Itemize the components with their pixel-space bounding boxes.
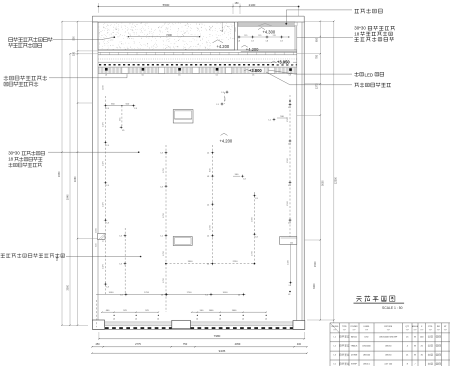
svg-text:TYP: TYP <box>352 329 355 331</box>
dim right extension y83.8 <box>305 83 321 85</box>
svg-text:650: 650 <box>316 37 319 42</box>
svg-text:1000: 1000 <box>252 216 254 222</box>
svg-text:L1: L1 <box>238 295 240 297</box>
svg-text:12350: 12350 <box>335 176 338 184</box>
svg-text:L1: L1 <box>207 236 209 238</box>
dim right extension y115.3 <box>297 114 321 116</box>
lamp column C dashed <box>165 145 167 312</box>
svg-text:TYP: TYP <box>406 329 409 331</box>
svg-text:1500: 1500 <box>287 116 289 122</box>
svg-text:1700: 1700 <box>163 167 165 173</box>
svg-text:L5: L5 <box>105 74 107 76</box>
lamp column B markers <box>124 235 125 236</box>
leader right1 return air <box>286 10 352 24</box>
svg-text:570: 570 <box>258 35 261 37</box>
svg-text:1500: 1500 <box>287 157 289 163</box>
leader right2 membrane <box>297 36 353 38</box>
svg-text:LED: LED <box>365 337 369 339</box>
subroom wall left inner <box>237 22 239 50</box>
svg-text:7400: 7400 <box>166 33 172 37</box>
dim right extension bottom <box>307 319 334 321</box>
level +4.200 stipple white backing <box>212 40 236 50</box>
dim right extension y240 <box>305 239 321 241</box>
dim right extension y21.3 <box>305 20 334 22</box>
svg-text:1180: 1180 <box>103 85 105 90</box>
subroom lamp markers L3 row <box>238 36 239 37</box>
band line y52.4 <box>98 51 297 53</box>
leader dot gypsum label <box>114 36 116 38</box>
svg-text:POWER: POWER <box>351 326 358 328</box>
leader right3 LED <box>268 70 352 74</box>
svg-text:L2: L2 <box>265 318 267 320</box>
level +4.200 middle hat <box>221 133 228 135</box>
bottom black dash row <box>105 327 172 329</box>
dim left extension y53.8 <box>70 53 98 55</box>
svg-text:4059: 4059 <box>235 342 241 346</box>
svg-text:570: 570 <box>244 35 247 37</box>
legend table grid <box>330 323 450 366</box>
subroom wall left outer <box>234 22 236 50</box>
svg-text:1500: 1500 <box>314 261 317 267</box>
svg-text:L1: L1 <box>206 295 208 297</box>
svg-text:18: 18 <box>354 31 359 36</box>
band dotted line <box>98 58 297 60</box>
drop to L5 marker <box>121 106 123 128</box>
svg-text:ANGLE: ANGLE <box>412 325 419 328</box>
svg-text:L3: L3 <box>107 185 109 187</box>
svg-text:TYP: TYP <box>444 329 447 331</box>
svg-text:450: 450 <box>96 343 101 346</box>
svg-text:570: 570 <box>273 35 276 37</box>
svg-text:10D: 10D <box>420 337 424 339</box>
svg-text:L3: L3 <box>161 186 163 188</box>
svg-text:RM: RM <box>437 326 440 328</box>
svg-text:150: 150 <box>235 2 240 5</box>
svg-text:LED3000K W30 WF: LED3000K W30 WF <box>379 337 398 339</box>
svg-text:1700: 1700 <box>210 224 212 230</box>
svg-text:L1: L1 <box>121 295 123 297</box>
dim left mid vline <box>69 54 71 326</box>
svg-text:L3: L3 <box>266 40 268 42</box>
svg-text:L3: L3 <box>288 185 290 187</box>
svg-text:1470: 1470 <box>103 263 105 269</box>
svg-text:500: 500 <box>290 243 293 245</box>
svg-text:150: 150 <box>72 51 75 56</box>
svg-text:LED4000: LED4000 <box>362 346 371 348</box>
mini dim 650/500 at A top <box>106 105 134 107</box>
svg-text:L3: L3 <box>289 74 291 76</box>
dim bottom row1 line <box>99 338 304 340</box>
svg-text:TYP: TYP <box>413 329 416 331</box>
gypsum ceiling stipple texture <box>99 23 234 50</box>
dim left extension y238.6 <box>78 238 99 240</box>
lamp column G markers <box>289 100 291 102</box>
svg-text:L2: L2 <box>242 318 244 320</box>
svg-text:L1: L1 <box>269 120 271 122</box>
level +3.950 label <box>277 59 294 64</box>
svg-text:2250: 2250 <box>233 261 239 263</box>
svg-text:W: W <box>414 346 416 348</box>
svg-text:1700: 1700 <box>163 277 165 283</box>
svg-text:LED5.0: LED5.0 <box>363 364 371 366</box>
svg-text:L3: L3 <box>120 236 122 238</box>
row H2 line <box>96 294 245 296</box>
svg-text:STRIP: STRIP <box>351 364 358 366</box>
svg-text:L3: L3 <box>288 294 290 296</box>
interior dim row right segment <box>192 311 267 313</box>
svg-text:2100: 2100 <box>249 3 256 7</box>
svg-text:TYP: TYP <box>429 329 432 331</box>
svg-text:9435: 9435 <box>219 349 226 353</box>
lamp column G dashed <box>289 95 291 237</box>
svg-text:1950: 1950 <box>58 171 61 177</box>
dim bottom row3 line <box>92 352 307 354</box>
lamp column F markers <box>254 195 255 196</box>
lamp column D dashed <box>212 145 214 265</box>
svg-text:LUMIN.: LUMIN. <box>363 326 370 328</box>
dim left ticks <box>61 21 62 22</box>
marker L3 right of mini dim <box>133 105 134 106</box>
AC return air grille bar <box>238 22 295 26</box>
svg-text:3400: 3400 <box>313 283 316 289</box>
lamp column B dashed <box>124 228 126 295</box>
svg-text:L3: L3 <box>288 223 290 225</box>
G lower stem to L3 <box>290 244 292 282</box>
wall right inner <box>296 22 298 321</box>
svg-text:L2: L2 <box>196 318 198 320</box>
svg-text:L2: L2 <box>157 318 159 320</box>
dim 7400 inside panel <box>128 36 199 38</box>
title underline <box>354 302 405 304</box>
dim bottom row2 line <box>92 346 307 348</box>
svg-text:780: 780 <box>316 54 319 59</box>
dim top extension left <box>97 3 99 13</box>
band line y73.7 <box>98 73 297 75</box>
light box 1 <box>173 110 193 123</box>
row H2 markers <box>125 294 126 295</box>
svg-text:+3.950: +3.950 <box>277 60 290 65</box>
leader left4 <box>66 256 141 258</box>
dim bottom row2 ticks <box>91 346 92 347</box>
svg-text:L3: L3 <box>161 153 163 155</box>
svg-text:FIXTURE: FIXTURE <box>384 326 392 328</box>
svg-text:1470: 1470 <box>103 160 105 166</box>
svg-text:CEILING: CEILING <box>331 326 339 328</box>
svg-text:W: W <box>414 337 416 339</box>
dim left extension y50.9 <box>78 50 99 52</box>
svg-text:L3: L3 <box>120 264 122 266</box>
hatch lamp squares L5 <box>105 68 108 71</box>
lamp column C markers <box>165 152 166 153</box>
level +4.300 hat <box>258 28 265 30</box>
svg-text:1800: 1800 <box>188 261 194 263</box>
svg-text:L5: L5 <box>122 130 124 132</box>
svg-text:L1: L1 <box>222 92 224 94</box>
subroom right inner line <box>294 26 296 50</box>
dim top overall line <box>98 6 298 8</box>
wall-attached box right <box>280 237 297 245</box>
svg-text:L3: L3 <box>280 40 282 42</box>
dim right extension y53.7 <box>297 53 321 55</box>
dim left extension y21.6 <box>62 21 98 23</box>
svg-text:W: W <box>414 355 416 357</box>
dim left outer vline <box>61 22 63 326</box>
svg-text:L1: L1 <box>207 264 209 266</box>
near-wall dashed segment bottom <box>95 300 97 327</box>
dim bottom row1 extensions <box>98 332 100 339</box>
svg-text:AR111: AR111 <box>351 336 358 339</box>
wall bottom outer line <box>92 328 304 330</box>
svg-text:1700: 1700 <box>252 250 254 256</box>
svg-text:30*30: 30*30 <box>354 26 366 31</box>
svg-text:1500: 1500 <box>287 200 289 206</box>
svg-text:2775: 2775 <box>135 342 141 346</box>
label right4 AC outlet position <box>355 83 391 87</box>
svg-text:3160: 3160 <box>56 255 59 261</box>
dim top ticks <box>98 6 99 7</box>
svg-text:+4.200: +4.200 <box>220 139 233 144</box>
svg-text:LED500: LED500 <box>363 355 371 357</box>
comb hatch band <box>99 68 296 74</box>
svg-text:L2: L2 <box>113 318 115 320</box>
svg-text:L3: L3 <box>251 40 253 42</box>
dim top extension mid2 <box>239 4 241 15</box>
leader gypsum label <box>53 37 114 39</box>
dim right ticks <box>320 21 321 22</box>
svg-text:L5: L5 <box>216 74 218 76</box>
label right3 LED strip <box>355 72 364 76</box>
svg-text:TYP: TYP <box>420 329 423 331</box>
band line y50 <box>98 49 297 51</box>
svg-text:DOWN: DOWN <box>351 355 358 357</box>
svg-text:+4.200: +4.200 <box>246 47 259 52</box>
marker near H2 right <box>289 291 291 293</box>
lamp column F dashed <box>254 192 256 264</box>
svg-text:1470: 1470 <box>103 201 105 207</box>
svg-text:1060: 1060 <box>109 292 115 294</box>
hatch white gap boxes <box>122 67 128 73</box>
dim left inner vline <box>77 22 79 326</box>
svg-text:L1: L1 <box>207 204 209 206</box>
band line y54.8 <box>98 54 297 56</box>
svg-text:+4.200: +4.200 <box>217 44 230 49</box>
svg-text:L2: L2 <box>219 318 221 320</box>
svg-text:1470: 1470 <box>103 121 105 127</box>
dim left extension y103 <box>78 102 93 104</box>
row H1 dashed line <box>166 263 255 265</box>
svg-text:TYP: TYP <box>387 329 390 331</box>
bottom corner box left <box>92 320 104 329</box>
label left2 blockboard <box>4 76 47 81</box>
band line y62.2 <box>98 61 297 63</box>
wall top outer <box>92 15 304 17</box>
svg-text:LED30: LED30 <box>385 346 392 348</box>
svg-text:SCALE 1 : 50: SCALE 1 : 50 <box>382 306 403 310</box>
level +4.200 underline <box>241 51 297 53</box>
level +4.200 stipple hat <box>213 40 224 43</box>
svg-text:3000: 3000 <box>67 284 70 290</box>
subroom small end dot <box>288 36 289 37</box>
bottom middle box <box>172 320 191 328</box>
dim right inner vline <box>319 21 321 320</box>
svg-text:L3: L3 <box>135 108 137 110</box>
svg-text:1700: 1700 <box>144 292 150 294</box>
subroom dim tick pair <box>235 27 237 31</box>
svg-text:5050: 5050 <box>321 180 324 186</box>
L2 markers bottom row <box>114 315 115 316</box>
band tick dots y50-55 <box>100 52 293 54</box>
svg-text:L1: L1 <box>217 104 219 106</box>
svg-text:1700: 1700 <box>163 212 165 218</box>
svg-text:+3.800: +3.800 <box>249 68 262 73</box>
marker F1 with 530 dim <box>273 119 274 120</box>
gypsum ceiling panel border <box>98 22 235 50</box>
stipple hanger line <box>221 22 223 31</box>
svg-text:L3: L3 <box>107 286 109 288</box>
svg-text:L3: L3 <box>244 179 246 181</box>
black dash strip (soft membrane) <box>99 64 297 66</box>
svg-text:L3: L3 <box>107 223 109 225</box>
lamp column A dashed <box>105 96 107 295</box>
svg-text:L3: L3 <box>238 40 240 42</box>
svg-text:L1: L1 <box>161 295 163 297</box>
bottom corner box right <box>293 321 305 330</box>
row H1 markers <box>165 263 167 265</box>
svg-text:TRACK: TRACK <box>351 345 358 348</box>
svg-text:LED: LED <box>365 72 374 77</box>
label left4 fixing point <box>1 253 65 257</box>
svg-text:1700: 1700 <box>163 250 165 256</box>
wall left inner <box>97 22 99 320</box>
svg-text:L1: L1 <box>161 236 163 238</box>
hatch end lamp square L3 <box>289 68 292 71</box>
svg-text:TYP: TYP <box>365 329 368 331</box>
AC bar right notch <box>294 22 297 26</box>
svg-text:7980: 7980 <box>214 334 221 338</box>
band line y67.1 <box>98 66 297 68</box>
svg-text:L3: L3 <box>288 107 290 109</box>
title ceiling plan glyphs <box>356 296 395 302</box>
dim right outer vline <box>333 21 335 323</box>
svg-text:LED30: LED30 <box>385 355 392 357</box>
svg-text:1370: 1370 <box>316 83 319 89</box>
svg-text:L3: L3 <box>207 176 209 178</box>
lamp column A markers <box>105 105 106 106</box>
light box 2 <box>173 237 192 246</box>
svg-text:L3: L3 <box>256 198 258 200</box>
svg-text:L2: L2 <box>135 318 137 320</box>
svg-text:L3: L3 <box>107 108 109 110</box>
svg-text:400: 400 <box>297 343 302 346</box>
svg-text:CTRL: CTRL <box>428 326 433 328</box>
leader right4 outlet <box>266 72 352 85</box>
svg-text:750: 750 <box>183 342 188 346</box>
AC bar chevron <box>258 23 272 26</box>
AC bar leader dot <box>285 23 287 25</box>
svg-text:L1: L1 <box>207 153 209 155</box>
svg-text:30*30: 30*30 <box>8 151 20 156</box>
lamp pair E dashed <box>224 92 226 104</box>
svg-text:TYP: TYP <box>333 329 336 331</box>
level +4.200 subroom hat <box>241 45 248 47</box>
label left1 gypsum board <box>9 37 53 42</box>
leader left2 <box>49 74 127 78</box>
svg-text:TYPE: TYPE <box>342 326 347 328</box>
svg-text:1000: 1000 <box>223 292 229 294</box>
svg-text:500: 500 <box>72 36 75 41</box>
wall top inner <box>92 21 304 23</box>
svg-text:L5: L5 <box>252 74 254 76</box>
svg-text:5500: 5500 <box>163 3 170 7</box>
svg-text:L5: L5 <box>142 74 144 76</box>
svg-text:L3: L3 <box>289 285 291 287</box>
interior dim row left segment <box>102 311 159 313</box>
bottom gray band <box>105 322 294 326</box>
svg-text:L3: L3 <box>288 143 290 145</box>
marker F2 with 500 dim <box>242 176 243 177</box>
dim top extension mid1 <box>232 4 234 15</box>
wall right outer <box>303 16 305 329</box>
svg-text:TYP: TYP <box>343 329 346 331</box>
svg-text:+4.300: +4.300 <box>263 29 276 34</box>
leader left3 <box>48 151 139 153</box>
wall right mid <box>301 22 303 321</box>
svg-text:L5: L5 <box>178 74 180 76</box>
wall niche detail box <box>98 234 106 240</box>
lamp column D markers <box>212 152 213 153</box>
dim left extension bottom <box>62 324 88 326</box>
svg-text:1940: 1940 <box>67 194 70 200</box>
svg-text:4.5T 140: 4.5T 140 <box>384 364 393 366</box>
level +3.800 label <box>249 68 265 73</box>
label right1 AC return <box>355 9 383 14</box>
svg-text:1060: 1060 <box>74 176 77 182</box>
svg-text:18: 18 <box>8 157 13 162</box>
svg-text:L3: L3 <box>256 237 258 239</box>
svg-text:1700: 1700 <box>187 292 193 294</box>
lamp pair E markers <box>226 91 227 92</box>
svg-text:1430: 1430 <box>288 259 290 265</box>
svg-text:L3: L3 <box>107 145 109 147</box>
wall left outer <box>91 16 93 329</box>
svg-text:TYP: TYP <box>437 329 440 331</box>
legend table header diagonal <box>330 323 340 333</box>
subroom lamp dim line <box>239 36 289 38</box>
dim top extension right <box>298 7 300 17</box>
